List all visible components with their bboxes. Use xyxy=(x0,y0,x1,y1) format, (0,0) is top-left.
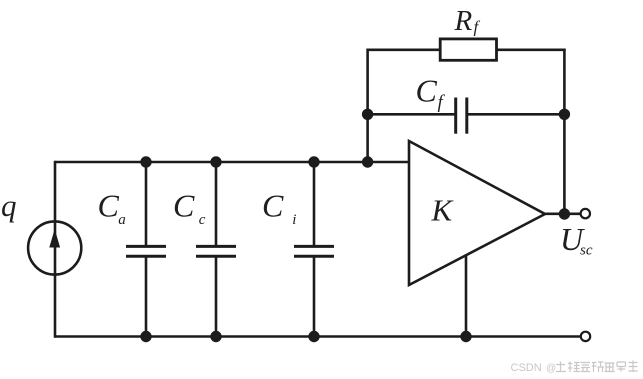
op-amp K (triangle) xyxy=(409,141,545,285)
svg-text:i: i xyxy=(292,212,296,228)
svg-text:sc: sc xyxy=(580,243,593,259)
label Cf xyxy=(416,73,446,114)
capacitor Ca xyxy=(126,161,166,338)
wire: Cf right lead xyxy=(467,113,564,116)
node: junction top rail Ca xyxy=(140,156,151,167)
wire: feedback right vertical xyxy=(563,49,566,215)
terminal: output (open circle) xyxy=(581,209,590,218)
label Ca xyxy=(98,188,126,229)
node: junction Cf left xyxy=(362,109,373,120)
watermark CJK glyph blocks xyxy=(556,361,638,373)
svg-text:a: a xyxy=(118,212,126,228)
wire: Cf left lead xyxy=(366,113,455,116)
wire: feedback left vertical xyxy=(366,49,369,164)
node: output junction xyxy=(559,208,570,219)
node: junction bottom rail amp xyxy=(460,331,471,342)
current source arrow head xyxy=(49,229,60,248)
capacitor Cf plates xyxy=(456,98,467,134)
label Usc xyxy=(560,221,593,259)
node: junction bottom rail Ci xyxy=(308,331,319,342)
svg-text:@: @ xyxy=(546,363,556,374)
svg-text:q: q xyxy=(1,188,17,223)
svg-text:C: C xyxy=(262,188,284,224)
svg-text:R: R xyxy=(454,5,473,37)
wire: Rf right lead xyxy=(497,48,566,51)
wire: left branch through source xyxy=(54,161,57,338)
svg-text:f: f xyxy=(438,92,446,113)
node: junction top rail feedback xyxy=(362,156,373,167)
svg-text:K: K xyxy=(431,193,455,228)
label Rf xyxy=(454,5,481,37)
node: junction bottom rail Cc xyxy=(210,331,221,342)
svg-text:C: C xyxy=(98,188,120,224)
svg-text:C: C xyxy=(173,188,195,224)
label Cc xyxy=(173,188,206,229)
node: junction bottom rail Ca xyxy=(140,331,151,342)
capacitor Ci xyxy=(294,161,334,338)
capacitor Cc xyxy=(196,161,236,338)
terminal: bottom right (open circle) xyxy=(581,332,590,341)
svg-text:C: C xyxy=(416,73,438,109)
resistor Rf body xyxy=(440,39,496,60)
node: junction top rail Ci xyxy=(308,156,319,167)
node: junction top rail Cc xyxy=(210,156,221,167)
wire: Rf left lead xyxy=(368,48,441,51)
svg-text:f: f xyxy=(474,18,481,37)
node: junction Cf right xyxy=(559,109,570,120)
wire: top rail (summing node) xyxy=(55,161,409,164)
current source q (circle symbol) xyxy=(28,221,81,274)
label Ci xyxy=(262,188,296,229)
svg-text:c: c xyxy=(199,212,206,228)
svg-text:CSDN: CSDN xyxy=(511,362,542,374)
wire: bottom rail (common return) xyxy=(55,335,581,338)
wire: output lead xyxy=(545,213,581,216)
wire: amp bottom to rail xyxy=(465,255,468,338)
